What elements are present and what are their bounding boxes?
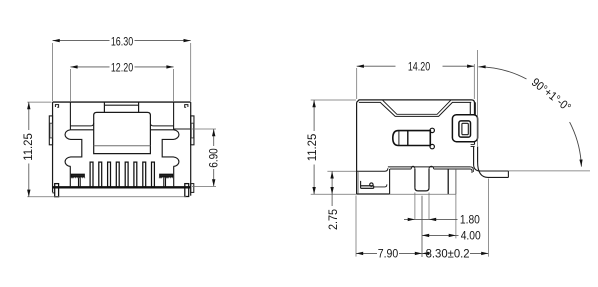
svg-text:8.30±0.2: 8.30±0.2 (426, 247, 470, 261)
svg-text:16.30: 16.30 (111, 34, 134, 48)
svg-text:11.25: 11.25 (305, 133, 319, 161)
svg-text:14.20: 14.20 (408, 60, 431, 74)
svg-text:1.80: 1.80 (460, 213, 480, 227)
svg-text:4.00: 4.00 (461, 229, 481, 243)
svg-text:2.75: 2.75 (326, 209, 340, 230)
svg-text:12.20: 12.20 (111, 61, 134, 75)
svg-text:11.25: 11.25 (21, 133, 35, 161)
svg-text:7.90: 7.90 (378, 247, 399, 261)
svg-text:6.90: 6.90 (207, 148, 221, 168)
